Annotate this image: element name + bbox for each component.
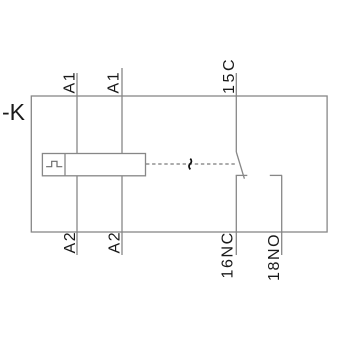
svg-text:18NO: 18NO [266, 233, 283, 281]
svg-text:-K: -K [2, 99, 26, 125]
svg-text:A2: A2 [107, 231, 124, 254]
svg-text:A1: A1 [106, 71, 123, 94]
svg-text:A2: A2 [62, 231, 79, 254]
svg-text:A1: A1 [62, 71, 79, 94]
svg-text:15C: 15C [221, 57, 238, 94]
svg-text:16NC: 16NC [220, 231, 237, 278]
